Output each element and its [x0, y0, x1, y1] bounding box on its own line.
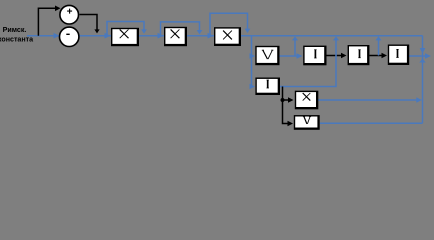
arrowhead into I2 — [341, 53, 347, 59]
wire: branch up from V1 output to main line — [294, 39, 296, 57]
arrowhead into I1 — [297, 53, 303, 59]
arrowhead into X3 — [208, 33, 214, 39]
label: Римск. константа (source block label) — [0, 26, 33, 43]
wire: vertical drop to V and I lower-left blocks — [251, 36, 254, 87]
block I2 (integrator) — [348, 45, 370, 65]
wire: I3 output / model output — [409, 55, 428, 57]
wire: I2 output to I3 (black) — [370, 55, 385, 57]
block X4 (lower X) — [295, 91, 319, 110]
plus sign — [67, 9, 72, 14]
arrowhead into I3 — [382, 53, 388, 59]
arrowhead into lower V — [288, 121, 294, 127]
arrowhead into lower X — [288, 97, 294, 103]
block V2 (lower V) — [294, 115, 320, 130]
arrowhead up on bus below output — [419, 59, 425, 63]
wire: bypass loop over X2 — [161, 22, 200, 36]
junction dot — [281, 98, 285, 102]
wire: stub into V1 — [251, 55, 254, 57]
arrowhead down bypass X3 — [245, 29, 251, 33]
wire: bypass loop over X3 — [210, 13, 248, 36]
arrowhead into I4 — [250, 84, 256, 90]
wire: V1 output to I1 — [280, 55, 302, 57]
arrowhead down bypass X2 — [197, 30, 203, 34]
arrowhead down from sum — [94, 29, 99, 33]
wire: I4 output to riser x336 — [280, 39, 336, 87]
arrowhead down bypass X1 — [141, 29, 147, 33]
wire: I1 output to I2 (black) — [327, 55, 344, 57]
arrowhead into sum + — [55, 6, 61, 12]
block I4 (lower integrator) — [255, 78, 280, 96]
arrowhead output right — [425, 53, 431, 59]
arrowhead up at main line x336 — [333, 36, 339, 40]
arrowhead up at main line x295 — [292, 36, 298, 40]
wire: branch up from I2-I3 wire to main line — [378, 39, 380, 56]
arrowhead into sum - (blue) — [54, 33, 60, 39]
wire: black branch up to plus sum input — [38, 8, 57, 35]
sum circle - — [59, 27, 78, 46]
svg-text:Римск.: Римск. — [3, 26, 27, 34]
block X3 (gain) — [214, 27, 241, 46]
block V1 (upper V) — [255, 46, 279, 65]
arrowhead into X1 — [105, 33, 111, 39]
wire: bypass loop over X1 — [107, 22, 144, 36]
wire: lower V output to right bus — [320, 122, 423, 124]
svg-text:константа: константа — [0, 36, 33, 44]
arrowhead into V1 — [250, 53, 256, 59]
block X2 (gain) — [164, 27, 187, 46]
arrowhead down on bus above output — [420, 48, 426, 54]
wire: lower X output to right bus — [318, 99, 419, 101]
sum circle + — [60, 5, 79, 24]
arrowhead into bus at y100 — [416, 97, 422, 103]
block I3 (integrator) — [388, 45, 409, 66]
wire: right-side vertical bus — [422, 36, 424, 124]
wire: sum + output down to main line — [80, 15, 98, 30]
wire: black branch from I4 output down to lower X and V — [283, 87, 291, 124]
wire: main signal line from constant to far right — [27, 35, 423, 37]
arrowhead up at main line x378 — [376, 36, 382, 40]
minus sign — [66, 33, 69, 35]
block I1 (integrator) — [303, 46, 326, 66]
block X1 (gain) — [111, 28, 139, 46]
arrowhead into X2 — [158, 33, 164, 39]
